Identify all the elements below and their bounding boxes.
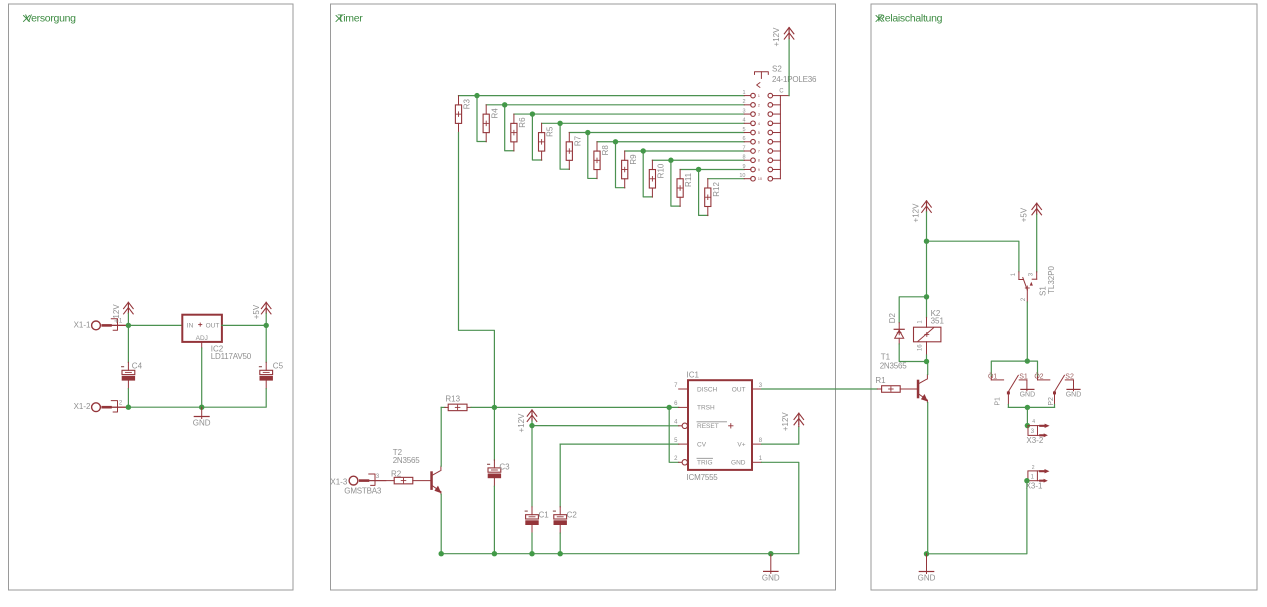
wire IC1 GND to rail bbox=[762, 462, 799, 553]
node junction row 6 bbox=[613, 139, 618, 144]
svg-text:10: 10 bbox=[758, 176, 763, 181]
wire +12V to IC1 RESET bbox=[532, 425, 679, 427]
supply +12V arrow (Versorgung) bbox=[124, 302, 134, 308]
wire +12V node down to relay bbox=[926, 241, 928, 297]
resistor R4 bbox=[485, 105, 487, 114]
node junction row 2 bbox=[502, 102, 507, 107]
wire R10 top to switch pin 8 bbox=[652, 159, 744, 161]
svg-text:T1: T1 bbox=[881, 352, 891, 361]
ground GND (contact 2) bbox=[1073, 380, 1075, 391]
node relay top junction bbox=[924, 294, 929, 299]
svg-text:X1-3: X1-3 bbox=[330, 478, 347, 487]
node rail C1 bbox=[529, 551, 534, 556]
svg-text:+12V: +12V bbox=[772, 27, 781, 47]
wire row 3 junction down to R5 bottom bbox=[532, 114, 541, 160]
svg-text:3: 3 bbox=[742, 108, 745, 114]
node rail C3 bbox=[492, 551, 497, 556]
frame Versorgung bbox=[9, 4, 294, 590]
svg-text:S2: S2 bbox=[772, 64, 782, 73]
resistor R9 bbox=[624, 151, 626, 160]
svg-text:2: 2 bbox=[742, 99, 745, 105]
svg-text:R6: R6 bbox=[518, 117, 527, 128]
node +12V junction Relais bbox=[924, 239, 929, 244]
svg-text:Ö2: Ö2 bbox=[1034, 372, 1043, 380]
switch S2 common contact row 7 (right) bbox=[768, 149, 773, 154]
node ground junction Versorgung bbox=[199, 405, 204, 410]
frame title Versorgung bbox=[24, 16, 30, 22]
wire C3 branch bbox=[493, 407, 495, 460]
svg-text:+12V: +12V bbox=[781, 412, 790, 432]
switch S1 TL32P0 bbox=[1018, 272, 1020, 280]
svg-text:R2: R2 bbox=[391, 470, 402, 479]
node X1-2 junction bbox=[126, 405, 131, 410]
svg-text:+12V: +12V bbox=[912, 203, 921, 223]
relay K2 351 coil bbox=[914, 327, 941, 342]
wire row 4 junction down to R7 bottom bbox=[560, 123, 569, 169]
svg-text:Versorgung: Versorgung bbox=[25, 13, 76, 25]
supply +5V arrow (Versorgung) bbox=[261, 302, 271, 308]
contact 2 pole P2 bbox=[1054, 394, 1056, 404]
node reset junction bbox=[529, 423, 534, 428]
node junction row 5 bbox=[585, 130, 590, 135]
wire S2 common to +12V bbox=[788, 39, 790, 96]
transistor T2 2N3565 bbox=[430, 471, 433, 490]
wire C1 to bottom rail bbox=[531, 533, 533, 554]
wire R12 top to switch pin 10 bbox=[708, 178, 744, 180]
wire R5 top to switch pin 4 bbox=[542, 122, 745, 124]
node X3-1 junction bbox=[1024, 478, 1029, 483]
node collector junction bbox=[924, 359, 929, 364]
svg-text:R13: R13 bbox=[445, 394, 460, 403]
svg-text:P1: P1 bbox=[995, 397, 1002, 406]
wire T1 collector to relay node bbox=[927, 362, 929, 375]
capacitor C3 bbox=[488, 468, 501, 472]
svg-text:ADJ: ADJ bbox=[196, 335, 208, 342]
wire T2 collector up to R13 node bbox=[440, 407, 442, 466]
resistor R10 bbox=[651, 160, 653, 169]
wire D2 to collector node bbox=[899, 344, 926, 362]
relay contact K2-1 bbox=[990, 376, 992, 380]
wire C2 to IC1 CV bbox=[560, 443, 679, 445]
capacitor C5 bbox=[260, 370, 273, 374]
wire +5V to switch S1 pin 3 bbox=[1036, 214, 1038, 272]
wire R2 to T2 base bbox=[413, 480, 431, 482]
wire poles to X3-2 bbox=[1008, 406, 1054, 408]
node junction row 9 bbox=[696, 167, 701, 172]
svg-text:R7: R7 bbox=[573, 135, 582, 146]
wire C2 to bottom rail bbox=[559, 533, 561, 554]
wire row 2 junction down to R6 bottom bbox=[505, 105, 514, 151]
wire R3 top to switch pin 1 bbox=[459, 95, 745, 97]
node +12V junction bbox=[126, 323, 131, 328]
svg-text:S1: S1 bbox=[1019, 373, 1028, 380]
svg-text:2N3565: 2N3565 bbox=[393, 456, 421, 465]
relay contact K2-2 bbox=[1037, 376, 1039, 380]
wire relay top to K2 pin 1 bbox=[926, 297, 928, 318]
capacitor C4 bbox=[122, 370, 135, 374]
svg-text:R1: R1 bbox=[875, 376, 886, 385]
resistor R13 bbox=[441, 406, 445, 408]
wire row 9 junction down to R12 bottom bbox=[699, 169, 708, 215]
switch S2 common bus bbox=[779, 96, 781, 179]
wire row 1 junction down to R4 bottom bbox=[477, 96, 486, 142]
wire R3 bottom down to timer core bbox=[459, 133, 495, 408]
svg-text:S1: S1 bbox=[1038, 286, 1047, 296]
voltage regulator IC2 LD117AV50 bbox=[182, 315, 222, 342]
svg-text:X1-1: X1-1 bbox=[74, 320, 91, 329]
svg-text:R12: R12 bbox=[712, 182, 721, 197]
wire row 7 junction down to R10 bottom bbox=[643, 151, 652, 197]
wire R13 to IC1 TRSH bbox=[471, 406, 679, 408]
wire CV node down to C2 bbox=[559, 444, 561, 507]
wire X1-2 to rail bbox=[112, 406, 129, 408]
IC1 pin 7 DISCH bbox=[679, 388, 688, 390]
wire R7 top to switch pin 5 bbox=[569, 132, 744, 134]
wire +12V node down to C4 bbox=[127, 325, 129, 362]
svg-text:351: 351 bbox=[931, 316, 945, 325]
svg-text:6: 6 bbox=[742, 136, 745, 142]
wire R11 top to switch pin 9 bbox=[680, 168, 744, 170]
supply +12V arrow (V+) bbox=[794, 413, 804, 419]
svg-text:24-1POLE36: 24-1POLE36 bbox=[772, 75, 817, 84]
wire R6 top to switch pin 3 bbox=[514, 113, 744, 115]
switch S2 common contact row 4 (right) bbox=[768, 121, 773, 126]
svg-text:IN: IN bbox=[187, 323, 194, 330]
node TRSH/TRIG junction bbox=[667, 405, 672, 410]
switch S2 24-1POLE36 body bbox=[755, 72, 769, 75]
svg-text:C2: C2 bbox=[567, 511, 578, 520]
resistor R8 bbox=[596, 142, 598, 151]
svg-text:C5: C5 bbox=[273, 362, 284, 371]
supply +12V arrow (reset node) bbox=[527, 410, 537, 416]
diode D2 bbox=[898, 323, 900, 330]
frame title Relaischaltung bbox=[876, 16, 882, 22]
wire to contact 1 terminal O1 bbox=[991, 361, 1027, 376]
svg-text:8: 8 bbox=[742, 155, 745, 161]
supply +12V arrow (Relais) bbox=[922, 201, 932, 207]
svg-text:R3: R3 bbox=[463, 98, 472, 109]
node rail C2 bbox=[558, 551, 563, 556]
svg-text:GND: GND bbox=[193, 419, 211, 428]
switch S2 common contact row 8 (right) bbox=[768, 158, 773, 163]
wire TRIG to TRSH node bbox=[669, 407, 679, 462]
wire reset node down to C1 bbox=[531, 426, 533, 507]
transistor T1 2N3565 bbox=[917, 380, 920, 399]
svg-text:ICM7555: ICM7555 bbox=[687, 473, 719, 482]
svg-text:10: 10 bbox=[739, 173, 745, 179]
switch S2 common contact row 10 (right) bbox=[768, 176, 773, 181]
svg-text:R10: R10 bbox=[657, 163, 666, 178]
supply +5V arrow (Relais) bbox=[1032, 203, 1042, 209]
IC1 pin 1 GND bbox=[752, 461, 762, 463]
svg-text:2: 2 bbox=[1032, 465, 1035, 471]
wire +12V node to switch S1 pin 1 bbox=[927, 241, 1019, 272]
switch S2 common contact row 5 (right) bbox=[768, 130, 773, 135]
wire R4 top to switch pin 2 bbox=[486, 104, 744, 106]
svg-text:R5: R5 bbox=[546, 126, 555, 137]
svg-text:GND: GND bbox=[731, 460, 746, 467]
svg-text:7: 7 bbox=[742, 145, 745, 151]
svg-text:GND: GND bbox=[918, 574, 936, 583]
wire R9 top to switch pin 7 bbox=[625, 150, 745, 152]
switch S2 common contact row 1 (right) bbox=[768, 93, 773, 98]
IC1 pin 2 TRIG (inverting) bbox=[679, 461, 682, 463]
capacitor C1 bbox=[526, 515, 539, 519]
node junction row 8 bbox=[668, 158, 673, 163]
wire C5 to bottom rail bbox=[202, 389, 267, 408]
svg-text:GND: GND bbox=[1066, 392, 1082, 399]
wire R1 to T1 base bbox=[900, 388, 917, 390]
svg-text:9: 9 bbox=[742, 164, 745, 170]
svg-text:OUT: OUT bbox=[732, 386, 746, 393]
wire row 8 junction down to R11 bottom bbox=[671, 160, 680, 206]
connector X3-2 bbox=[1028, 426, 1038, 436]
frame title Timer bbox=[336, 16, 342, 22]
node poles junction bbox=[1025, 405, 1030, 410]
connector X3-1 bbox=[1028, 471, 1038, 481]
svg-text:X3-2: X3-2 bbox=[1026, 436, 1043, 445]
svg-text:Timer: Timer bbox=[338, 13, 364, 25]
svg-text:TRSH: TRSH bbox=[697, 405, 715, 412]
svg-text:16: 16 bbox=[918, 344, 924, 351]
ground GND (Timer) bbox=[770, 554, 772, 574]
svg-text:GND: GND bbox=[762, 574, 780, 583]
wire C4 to bottom rail bbox=[127, 389, 129, 408]
resistor R7 bbox=[568, 133, 570, 142]
svg-text:IC1: IC1 bbox=[687, 370, 700, 379]
svg-text:R9: R9 bbox=[629, 154, 638, 165]
wire K2 pin 16 to collector node bbox=[926, 342, 928, 355]
svg-text:Relaischaltung: Relaischaltung bbox=[878, 13, 943, 25]
node junction row 3 bbox=[530, 111, 535, 116]
resistor R2 bbox=[394, 477, 413, 484]
wire C3 to bottom rail bbox=[493, 486, 495, 553]
capacitor C2 bbox=[554, 515, 567, 519]
wire +5V node down to C5 bbox=[265, 325, 267, 362]
svg-text:2N3565: 2N3565 bbox=[880, 361, 908, 370]
svg-text:4: 4 bbox=[742, 118, 745, 124]
svg-text:V+: V+ bbox=[737, 441, 745, 448]
resistor R1 bbox=[877, 388, 881, 390]
contact 1 pole P1 bbox=[1007, 394, 1009, 404]
svg-text:TL32P0: TL32P0 bbox=[1047, 265, 1056, 294]
wire row 5 junction down to R8 bottom bbox=[588, 133, 597, 179]
svg-text:+5V: +5V bbox=[252, 304, 261, 319]
connector X1-2 bbox=[92, 403, 101, 412]
svg-text:GMSTBA3: GMSTBA3 bbox=[344, 487, 382, 496]
svg-text:OUT: OUT bbox=[206, 323, 220, 330]
svg-text:R4: R4 bbox=[490, 108, 499, 119]
switch S2 common contact row 3 (right) bbox=[768, 112, 773, 117]
svg-text:Ö1: Ö1 bbox=[988, 372, 997, 380]
wire X1-3 to R2 bbox=[369, 480, 394, 482]
wire IC1 OUT to R1 bbox=[762, 388, 878, 390]
node GND junction Timer bbox=[768, 551, 773, 556]
node X3-2 junction bbox=[1025, 423, 1030, 428]
frame Timer bbox=[331, 4, 836, 590]
switch S2 common contact row 6 (right) bbox=[768, 139, 773, 144]
svg-text:C4: C4 bbox=[132, 362, 143, 371]
ground GND (contact 1) bbox=[1026, 380, 1028, 391]
svg-text:C1: C1 bbox=[539, 511, 550, 520]
connector X1-1 bbox=[92, 321, 101, 330]
svg-text:5: 5 bbox=[742, 127, 745, 133]
wire bottom rail Versorgung bbox=[128, 406, 201, 408]
wire S1 pole down to contacts bbox=[1026, 302, 1028, 361]
wire T1 emitter to ground rail bbox=[927, 403, 929, 554]
svg-text:R8: R8 bbox=[601, 145, 610, 156]
node contacts junction bbox=[1025, 358, 1030, 363]
resistor R12 bbox=[707, 179, 709, 188]
switch S2 common contact row 2 (right) bbox=[768, 103, 773, 108]
node +5V junction bbox=[264, 323, 269, 328]
IC1 pin 6 TRSH bbox=[679, 406, 688, 408]
wire row 6 junction down to R9 bottom bbox=[616, 142, 625, 188]
wire X1-1 to +12V node bbox=[112, 324, 129, 326]
node ground junction Relais bbox=[924, 551, 929, 556]
resistor R6 bbox=[513, 114, 515, 123]
wire T2 emitter to bottom rail bbox=[440, 494, 442, 554]
ground GND (Relais) bbox=[926, 554, 928, 574]
resistor R11 bbox=[679, 169, 681, 178]
timer IC1 ICM7555 bbox=[688, 380, 752, 470]
ground GND (Versorgung) bbox=[201, 407, 203, 418]
svg-text:4: 4 bbox=[1032, 419, 1035, 425]
svg-text:1: 1 bbox=[742, 90, 745, 96]
svg-text:C3: C3 bbox=[499, 463, 510, 472]
svg-text:+12V: +12V bbox=[517, 413, 526, 433]
svg-text:X1-2: X1-2 bbox=[74, 402, 91, 411]
node junction row 1 bbox=[474, 93, 479, 98]
IC1 pin 3 OUT bbox=[752, 388, 762, 390]
node R13/C3 junction bbox=[492, 405, 497, 410]
node rail T2 bbox=[439, 551, 444, 556]
connector X1-3 GMSTBA3 bbox=[349, 476, 358, 485]
svg-text:C: C bbox=[779, 88, 784, 94]
IC1 pin 4 RESET (inverting) bbox=[679, 425, 682, 427]
wire +12V node to IC2 IN bbox=[128, 324, 182, 326]
svg-text:D2: D2 bbox=[888, 313, 897, 324]
resistor R3 bbox=[458, 96, 460, 105]
node junction row 4 bbox=[557, 121, 562, 126]
wire bottom rail Timer bbox=[441, 553, 771, 555]
svg-text:R11: R11 bbox=[684, 172, 693, 187]
wire IC1 V+ to +12V bbox=[762, 427, 799, 445]
resistor R5 bbox=[541, 123, 543, 132]
svg-text:GND: GND bbox=[1020, 392, 1036, 399]
wire IC2 ADJ to ground rail bbox=[201, 342, 203, 348]
wire X3-1 to ground rail bbox=[927, 481, 1027, 554]
IC1 pin 5 CV bbox=[679, 443, 688, 445]
svg-text:DISCH: DISCH bbox=[697, 386, 718, 393]
wire IC2 OUT to +5V node bbox=[222, 324, 266, 326]
svg-text:CV: CV bbox=[697, 441, 707, 448]
svg-text:+12V: +12V bbox=[112, 304, 121, 324]
svg-text:+5V: +5V bbox=[1020, 207, 1029, 222]
svg-text:LD117AV50: LD117AV50 bbox=[211, 352, 252, 361]
IC1 pin 8 V+ bbox=[752, 443, 762, 445]
supply +12V arrow (top of Timer) bbox=[784, 28, 794, 34]
node junction row 7 bbox=[641, 148, 646, 153]
svg-text:TRIG: TRIG bbox=[697, 460, 713, 467]
frame Relaischaltung bbox=[871, 4, 1257, 590]
wire to contact 2 terminal O2 bbox=[1027, 361, 1037, 376]
switch S2 common contact row 9 (right) bbox=[768, 167, 773, 172]
wire R8 top to switch pin 6 bbox=[597, 141, 744, 143]
svg-text:RESET: RESET bbox=[697, 423, 719, 430]
svg-text:S2: S2 bbox=[1065, 373, 1074, 380]
wire flyback branch to D2 bbox=[899, 297, 926, 323]
